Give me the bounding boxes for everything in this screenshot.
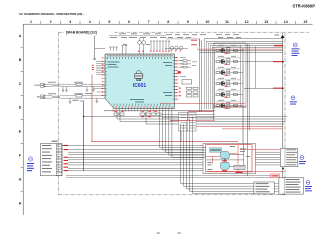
- crystal X601: [182, 80, 192, 84]
- wire collect verticals right of stages: [241, 45, 244, 144]
- left input connector SUBW: [34, 83, 47, 87]
- IC601 left edge inner ticks: [105, 58, 107, 95]
- IC601 right pin numbers (red): [175, 57, 177, 99]
- red marks resistor array: [179, 88, 181, 97]
- red emphasis mark on feed: [274, 45, 283, 46]
- svg-text:E: E: [19, 130, 22, 134]
- svg-text:6: 6: [128, 20, 130, 24]
- svg-text:H: H: [19, 201, 22, 205]
- wire twisted pair from AM to IC601: [47, 96, 106, 98]
- junction dot below CN705: [282, 168, 284, 170]
- svg-text:12: 12: [245, 20, 249, 24]
- wire IC601 left pin feed 2: [97, 91, 105, 93]
- red emphasis output row 1: [273, 61, 284, 62]
- CN705 divider: [284, 149, 286, 167]
- IC601 package icon: [134, 71, 143, 81]
- IC601 left pin numbers (red): [102, 58, 104, 96]
- svg-text:20: 20: [177, 231, 181, 235]
- wire vertical pair top cluster: [200, 39, 202, 112]
- IC601 interior micro text: [108, 62, 173, 103]
- red power rail bend to DSP block: [91, 140, 238, 142]
- red jumper J602: [191, 44, 197, 46]
- svg-text:D: D: [19, 106, 22, 110]
- wire op-amp output row 2: [244, 87, 283, 89]
- grid row letters A-H: [19, 34, 22, 205]
- svg-text:STR-K660P: STR-K660P: [292, 4, 315, 9]
- resistor cluster below IC601: [114, 113, 161, 115]
- svg-text:1: 1: [30, 20, 32, 24]
- DSP section red border: [206, 145, 252, 172]
- transistor Q604: [175, 46, 178, 49]
- wire IC bottom-right drop bundle: [160, 112, 207, 158]
- svg-text:8: 8: [167, 20, 169, 24]
- left input connector AM: [37, 95, 47, 99]
- wire arrow stem: [282, 33, 284, 35]
- blue note text B: [290, 101, 297, 104]
- op-amp feed bus verticals: [205, 39, 215, 109]
- red horizontal rail E: [160, 103, 245, 105]
- board boundary dash-dot bottom: [59, 194, 286, 196]
- CN703 row texts: [256, 183, 270, 192]
- off-board arrow marker: [281, 35, 285, 38]
- blue note text A: [292, 48, 300, 56]
- micro text in DSP right part: [240, 149, 250, 157]
- wire bundle IC bottom to horizontal bus: [84, 112, 288, 125]
- IC601 main microprocessor body: [105, 54, 175, 109]
- resistor R612: [76, 95, 82, 97]
- op-amp U704 stage: [216, 78, 243, 87]
- resistor R622: [183, 63, 187, 65]
- IC601 left pins upper: [96, 62, 105, 75]
- svg-text:5: 5: [108, 20, 110, 24]
- IC601 bottom pins: [113, 109, 172, 112]
- red rail short at amp bottom: [214, 105, 246, 107]
- red supply vertical V-: [248, 44, 250, 131]
- blue note icon B: [291, 96, 295, 100]
- red rail segment C: [170, 119, 215, 121]
- wire heavy vertical x84: [80, 101, 84, 171]
- svg-text:14: 14: [284, 20, 288, 24]
- op-amp U705 stage: [216, 89, 243, 98]
- grid column tick marks: [41, 21, 296, 24]
- wire IC right pin extensions: [179, 61, 192, 67]
- capacitor C616: [96, 98, 98, 103]
- op-amp U703 stage: [216, 67, 243, 76]
- capacitor C613: [69, 98, 71, 103]
- wire top tie bus: [109, 35, 166, 37]
- red mark X601: [178, 71, 181, 73]
- DSP micro text: [208, 146, 236, 170]
- connector CN702 body: [40, 144, 62, 176]
- blue note icon D: [306, 181, 310, 185]
- CN705 row texts: [286, 149, 297, 165]
- main vertical wire right side: [282, 38, 284, 178]
- wire lower long pair: [66, 176, 279, 178]
- red wires DSP internal: [206, 153, 237, 164]
- blue note text C: [299, 161, 306, 164]
- red marks under power ICs: [222, 160, 227, 171]
- wire vertical feed left of IC: [94, 36, 96, 59]
- wire bus CN702 to DSP block: [62, 146, 203, 171]
- blue note text left margin: [27, 163, 34, 171]
- red labels below IC601: [114, 111, 157, 118]
- IC601 bottom pin numbers (red): [113, 107, 173, 108]
- wire bus top bends to right header: [200, 39, 283, 53]
- transistor Q603: [170, 46, 173, 49]
- svg-text:G: G: [19, 177, 22, 181]
- grid column numbers 1-15: [30, 20, 307, 24]
- red text in RY702: [272, 175, 279, 176]
- wire bundle drop to speaker connector: [181, 117, 254, 194]
- component label smudge row above amp block: [166, 34, 241, 38]
- blue note text D: [305, 186, 312, 191]
- capacitor C614: [86, 87, 88, 92]
- wire Q601 stubs: [140, 38, 144, 54]
- top cluster extra labels: [119, 32, 161, 35]
- connector CN702 label: [52, 141, 58, 142]
- transistor Q602: [142, 41, 146, 45]
- header label micro text: [275, 34, 280, 37]
- op-amp U702 stage: [216, 56, 243, 65]
- IC601 top inner pin-name smudge: [107, 57, 171, 59]
- DSP section outer box: [203, 144, 256, 174]
- wire op-amp output row 1: [244, 61, 283, 63]
- red rail to CN705: [240, 149, 280, 151]
- power IC Q702 cyan: [221, 162, 230, 169]
- node stubs left input labels: [48, 82, 92, 94]
- svg-text:10: 10: [205, 20, 209, 24]
- red pin marks CN702: [64, 145, 69, 171]
- wire rows below IC: [162, 115, 215, 118]
- transistor Q605: [179, 46, 182, 49]
- wire tie Q603-Q605: [165, 48, 188, 50]
- red rail vertical D: [213, 104, 215, 120]
- power IC Q701 cyan: [221, 152, 230, 159]
- speaker connector CN704: [279, 178, 304, 194]
- IC601 top edge inner ticks: [108, 54, 171, 56]
- IC601 right pins: [175, 58, 179, 100]
- wire vertical x255: [255, 46, 257, 88]
- resistor R611: [76, 83, 82, 85]
- grid row tick marks: [21, 48, 24, 191]
- blue note icon A right top: [293, 43, 297, 47]
- CN704 row texts: [286, 179, 301, 192]
- red power rail vertical x92: [91, 75, 92, 142]
- IC601 top pin numbers (red): [109, 55, 173, 56]
- red rail segment A: [188, 111, 214, 113]
- connector CN702 pin column: [56, 144, 62, 176]
- op-amp U701 stage: [216, 45, 243, 54]
- power amp block outline: [214, 43, 246, 108]
- red emphasis output row 2: [273, 88, 284, 89]
- capacitor C617: [93, 58, 96, 61]
- junction dot DSP: [224, 159, 225, 160]
- svg-text:IC601: IC601: [133, 83, 147, 89]
- svg-text:[M4-B BOARD] (1/2): [M4-B BOARD] (1/2): [66, 31, 97, 35]
- wire IC601 left pin feed 1: [94, 88, 106, 90]
- red bus line lower 2: [222, 128, 283, 130]
- resistor array right of IC: [187, 87, 199, 97]
- wire twisted pair from SUBW to IC601: [47, 84, 106, 86]
- IC right pin gray labels: [180, 57, 197, 77]
- blue note icon left margin: [28, 157, 32, 161]
- svg-text:3: 3: [69, 20, 71, 24]
- junction dots on main vertical: [282, 61, 283, 62]
- blue note icon C: [300, 156, 304, 160]
- svg-text:B: B: [19, 58, 22, 62]
- relay RY701 box: [234, 165, 245, 173]
- op-amp U706 stage: [216, 100, 243, 109]
- svg-text:AM: AM: [37, 96, 40, 99]
- board boundary dash-dot right: [284, 33, 286, 195]
- svg-text:4: 4: [89, 20, 91, 24]
- svg-text:2: 2: [50, 20, 52, 24]
- svg-text:5.2. SCHEMATIC DIAGRAM – MAIN: 5.2. SCHEMATIC DIAGRAM – MAIN SECTION (1…: [19, 12, 85, 16]
- svg-text:F: F: [19, 154, 22, 158]
- board boundary dash overlay on CN702: [58, 144, 60, 176]
- wire DSP internal cross: [206, 144, 243, 167]
- red label box RY702: [271, 174, 280, 178]
- resistor R621: [183, 60, 187, 62]
- svg-text:11: 11: [225, 20, 229, 24]
- relay connector CN705 mid right: [280, 149, 298, 167]
- wire stubs CN703 to CN704: [274, 184, 279, 192]
- grid ruler top line: [23, 23, 312, 25]
- IC701 label block cyan: [210, 148, 222, 152]
- svg-text:SUBW: SUBW: [34, 85, 40, 87]
- board name label: [65, 30, 114, 34]
- capacitor C611: [62, 87, 64, 92]
- connector CN702 row texts: [42, 145, 52, 172]
- red wire speaker rail: [207, 171, 284, 173]
- red rail segment B: [170, 112, 188, 121]
- left pin red labels: [92, 65, 94, 70]
- ground rail below IC601: [104, 110, 215, 112]
- svg-text:13: 13: [264, 20, 268, 24]
- IC601 bottom inner pin-name smudge: [114, 104, 171, 106]
- component labels above IC (gray micro text): [110, 37, 166, 45]
- resistor bank R601-R607 above IC: [150, 41, 170, 51]
- capacitor C601 group above IC: [109, 47, 118, 51]
- svg-text:19: 19: [156, 231, 160, 235]
- svg-text:7: 7: [148, 20, 150, 24]
- capacitor C612: [65, 87, 67, 92]
- svg-text:C: C: [19, 82, 22, 86]
- wire top tie bus 2: [166, 39, 200, 46]
- red pin marks above IC: [138, 51, 169, 52]
- svg-text:9: 9: [187, 20, 189, 24]
- resistor R623: [183, 66, 187, 68]
- grid ruler left line: [22, 24, 24, 215]
- IC601 right edge inner ticks: [173, 58, 175, 100]
- capacitor C615: [92, 87, 94, 92]
- board boundary dash-dot left: [58, 32, 60, 195]
- wire bus DSP block to CN705: [256, 152, 281, 165]
- svg-text:15: 15: [303, 20, 307, 24]
- resistor network block below-right of IC: [179, 113, 197, 132]
- connector CN702 pin boxes: [57, 145, 61, 173]
- red jumper J601: [191, 39, 197, 41]
- speaker connector CN703: [254, 182, 274, 194]
- capacitor C605 pair: [121, 46, 127, 55]
- transistor Q601: [138, 41, 142, 45]
- wire horizontal into IC top-left: [95, 47, 105, 49]
- red supply vertical V+: [246, 44, 248, 176]
- red power feed line to header: [197, 48, 283, 50]
- red bus line lower: [181, 126, 283, 141]
- CN704 divider: [283, 178, 285, 194]
- svg-text:A: A: [19, 34, 22, 38]
- red pin marks Q603 area: [171, 50, 181, 51]
- board boundary dash-dot top: [59, 31, 310, 33]
